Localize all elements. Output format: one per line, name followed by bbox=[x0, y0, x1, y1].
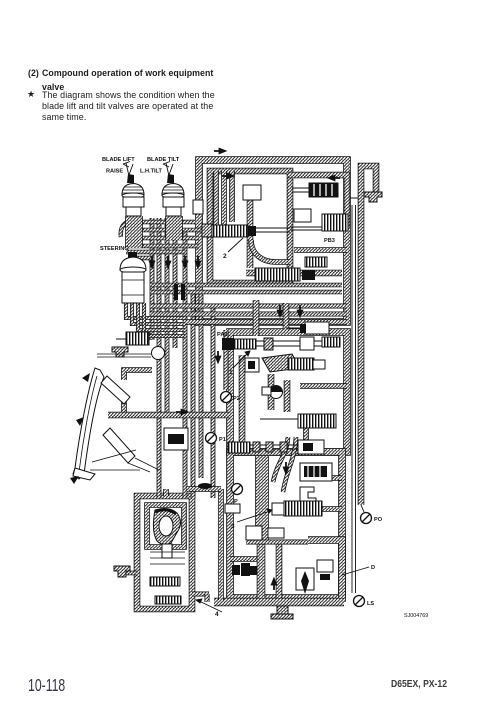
svg-text:RAISE: RAISE bbox=[106, 169, 123, 175]
svg-text:SJ004769: SJ004769 bbox=[404, 613, 428, 619]
svg-text:D: D bbox=[371, 565, 375, 571]
svg-text:PA2: PA2 bbox=[217, 332, 227, 338]
svg-text:LS: LS bbox=[367, 601, 374, 607]
svg-text:P2: P2 bbox=[233, 396, 240, 402]
svg-text:3: 3 bbox=[231, 523, 235, 530]
svg-text:1: 1 bbox=[229, 369, 233, 376]
svg-text:4: 4 bbox=[215, 611, 219, 618]
svg-text:PB3: PB3 bbox=[324, 238, 335, 244]
svg-text:P: P bbox=[234, 499, 238, 505]
svg-text:BLADE LIFT: BLADE LIFT bbox=[102, 157, 135, 163]
svg-text:2: 2 bbox=[223, 253, 227, 260]
svg-text:L.H.TILT: L.H.TILT bbox=[140, 169, 163, 175]
svg-text:STEERING: STEERING bbox=[100, 246, 129, 252]
svg-text:BLADE TILT: BLADE TILT bbox=[147, 157, 180, 163]
svg-text:PO: PO bbox=[374, 517, 383, 523]
svg-text:P1: P1 bbox=[219, 437, 226, 443]
